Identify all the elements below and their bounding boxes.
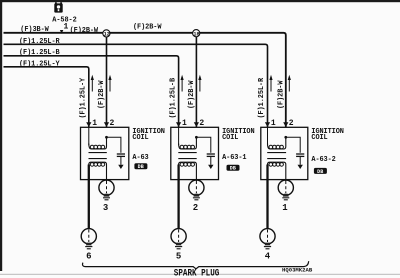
coil 2 primary winding with pin wires: [179, 127, 197, 149]
coil 3 secondary winding: [268, 162, 286, 181]
terminal arrow pin 2 of coil 2: [194, 122, 199, 127]
current arrow on coil 1 pin 1 wire: [91, 75, 94, 92]
svg-text:1: 1: [92, 119, 97, 128]
svg-text:(F)1.25L-B: (F)1.25L-B: [169, 78, 177, 119]
svg-text:1: 1: [271, 119, 276, 128]
svg-text:(F)2B-W: (F)2B-W: [70, 27, 99, 35]
svg-text:5: 5: [176, 251, 181, 261]
wire branch to capacitor coil 3: [286, 137, 300, 153]
current arrow on coil 3 pin 1 wire: [269, 75, 272, 92]
svg-text:2: 2: [193, 203, 198, 213]
terminal arrow from A-58-2 onto wire: [60, 30, 63, 34]
wire (F)1.25L-R feed to coil 3 pin 1: [4, 44, 268, 127]
current arrow on coil 3 pin 2 wire: [288, 75, 291, 92]
coil 1 core lines: [89, 153, 107, 159]
svg-text:1: 1: [182, 119, 187, 128]
spark plug 6: [81, 229, 96, 249]
svg-text:(F)1.25L-R: (F)1.25L-R: [258, 77, 266, 118]
coil 2 secondary winding: [179, 162, 197, 181]
terminal arrow pin 1 of coil 3: [265, 122, 270, 127]
capacitor inside coil 2: [207, 154, 215, 169]
svg-text:A-63-1: A-63-1: [222, 154, 246, 162]
wire splice drop to coil 1 pin 2: [106, 37, 108, 128]
svg-text:(F)1.25L-Y: (F)1.25L-Y: [19, 60, 60, 68]
svg-text:(F)1.25L-R: (F)1.25L-R: [19, 38, 60, 46]
svg-text:(F)2B-W: (F)2B-W: [98, 80, 106, 109]
spark plug 4: [260, 229, 275, 249]
svg-text:SPARK PLUG: SPARK PLUG: [174, 266, 220, 278]
wire splice drop to coil 2 pin 2: [195, 37, 197, 128]
ignition coil A-63 box outline: [81, 127, 129, 179]
terminal arrow pin 1 of coil 2: [176, 122, 181, 127]
coil 1 HT tower output circle: [99, 180, 114, 200]
connector icon A-58-2: [54, 2, 62, 12]
coil 3 primary winding with pin wires: [268, 127, 286, 149]
svg-text:HQ03MK2AB: HQ03MK2AB: [282, 267, 313, 274]
ignition coil A-63-1 box outline: [171, 127, 219, 179]
svg-text:COIL: COIL: [132, 134, 148, 142]
terminal arrow pin 2 of coil 1: [104, 122, 109, 127]
svg-text:3: 3: [103, 203, 108, 213]
svg-text:6: 6: [86, 251, 91, 261]
svg-text:1: 1: [282, 203, 288, 213]
connector colour tag coil 1: [134, 163, 147, 170]
high tension cable coil 2 to spark plug 5: [177, 165, 179, 230]
page footer rule: [0, 274, 400, 275]
node: coil 1 pin2/primary/capacitor junction: [105, 136, 108, 139]
page border top: [0, 0, 400, 2]
svg-text:4: 4: [265, 251, 271, 261]
node: coil 2 pin2/primary/capacitor junction: [195, 136, 198, 139]
connector colour tag coil 3: [314, 168, 327, 175]
page border left: [0, 0, 2, 271]
spark plug 5: [171, 229, 186, 249]
svg-text:DB: DB: [138, 164, 144, 170]
connector colour tag coil 2: [227, 165, 240, 172]
high tension cable coil 3 to spark plug 4: [266, 165, 268, 230]
svg-text:COIL: COIL: [222, 134, 238, 142]
svg-text:1: 1: [64, 23, 69, 32]
label IGNITION COIL 2: [222, 128, 254, 142]
svg-text:A-63-2: A-63-2: [311, 156, 335, 164]
svg-text:(F)2B-W: (F)2B-W: [278, 80, 286, 109]
svg-text:(F)2B-W: (F)2B-W: [188, 80, 196, 109]
label IGNITION COIL 1: [132, 128, 164, 142]
svg-text:DB: DB: [230, 166, 236, 172]
coil 3 core lines: [267, 153, 286, 159]
wire branch to capacitor coil 1: [107, 137, 121, 153]
terminal arrow pin 1 of coil 1: [86, 122, 91, 127]
terminal arrow pin 2 of coil 3: [283, 122, 288, 127]
current arrow on coil 2 pin 1 wire: [181, 75, 184, 92]
wire branch to capacitor coil 2: [196, 137, 210, 153]
coil 1 secondary winding: [89, 162, 107, 181]
high tension cable coil 1 to spark plug 6: [88, 165, 90, 230]
svg-text:(F)1.25L-B: (F)1.25L-B: [19, 49, 60, 57]
svg-text:(F)1.25L-Y: (F)1.25L-Y: [80, 77, 88, 118]
wire (F)1.25L-B feed to coil 2 pin 1: [4, 56, 179, 128]
svg-text:12: 12: [104, 32, 110, 38]
svg-text:18: 18: [193, 31, 199, 37]
node: coil 3 pin2/primary/capacitor junction: [284, 136, 287, 139]
coil 3 HT tower output circle: [278, 180, 293, 200]
spark plug group bracket: [83, 261, 309, 269]
label IGNITION COIL 3: [311, 128, 343, 142]
current arrow on coil 1 pin 2 wire: [108, 75, 111, 92]
coil 2 HT tower output circle: [189, 180, 204, 200]
splice junction on top wire above coil 2: [193, 30, 200, 38]
svg-text:COIL: COIL: [311, 134, 327, 142]
wire (F)3B-W / (F)2B-W top feed to coil 3 pin 2: [4, 33, 286, 128]
splice junction on top wire above coil 1: [103, 30, 110, 38]
capacitor inside coil 1: [117, 154, 125, 169]
current arrow on coil 2 pin 2 wire: [198, 75, 201, 92]
wire (F)1.25L-Y feed to coil 1 pin 1: [4, 67, 89, 128]
coil 2 core lines: [178, 153, 196, 159]
capacitor inside coil 3: [296, 154, 304, 169]
svg-text:(F)3B-W: (F)3B-W: [20, 26, 49, 34]
coil 1 primary winding with pin wires: [89, 127, 107, 149]
svg-text:DB: DB: [317, 169, 323, 175]
svg-text:A-63: A-63: [132, 154, 148, 162]
ignition coil A-63-2 box outline: [261, 127, 308, 179]
svg-text:(F)2B-W: (F)2B-W: [133, 24, 162, 32]
